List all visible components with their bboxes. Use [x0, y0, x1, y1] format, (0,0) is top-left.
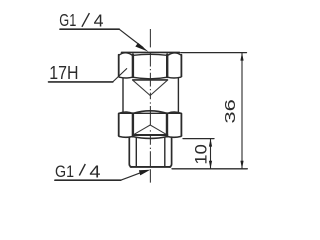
hex nut top: left corner line — [132, 55, 134, 77]
stem bottom edge — [131, 166, 171, 168]
label G1/4 top slash — [82, 13, 90, 27]
svg-text:G1: G1 — [59, 10, 76, 30]
hex nut bottom: center face top arc — [133, 111, 167, 114]
svg-text:10: 10 — [193, 144, 211, 164]
hex nut top: flat top line — [122, 51, 180, 53]
hex nut top: right outer edge — [180, 55, 182, 77]
hex nut bottom: bottom wavy line — [119, 136, 182, 139]
svg-text:4: 4 — [89, 162, 101, 182]
svg-text:G1: G1 — [55, 163, 74, 181]
female port cone: right leg — [150, 80, 167, 95]
hex nut bottom: top joint line — [119, 112, 181, 114]
hex nut top: right corner line — [166, 55, 168, 77]
stem thread line right — [164, 138, 166, 167]
leader 17H: diagonal — [113, 69, 127, 82]
leader 17H: underline — [49, 81, 113, 83]
leader G1/4 top: underline — [60, 28, 119, 30]
body right edge — [177, 78, 179, 111]
arrowhead leader G1/4 top — [135, 43, 148, 52]
hex nut top: bottom wavy line — [119, 77, 182, 79]
hex nut top: left face chamfer arc — [119, 53, 132, 55]
hex nut bottom: right corner line — [166, 113, 168, 136]
hex nut top: center face chamfer arc — [133, 53, 167, 56]
hex nut bottom: right outer edge — [180, 114, 182, 136]
arrowhead dim 10 up — [209, 139, 212, 147]
leader G1/4 top: diagonal — [119, 29, 143, 47]
male cone triangle: left leg — [133, 125, 150, 135]
arrowhead dim 36 up — [240, 53, 243, 61]
body left edge — [122, 78, 124, 111]
svg-text:4: 4 — [94, 10, 104, 30]
female port cone: top line — [133, 79, 168, 81]
hex nut bottom: left outer edge — [118, 114, 120, 136]
hex nut bottom: left face top arc — [119, 112, 132, 113]
label G1/4 bottom slash — [79, 164, 85, 176]
stem left outer edge — [129, 137, 131, 167]
hex nut bottom: right face top arc — [168, 112, 181, 113]
dim 10 line — [210, 139, 212, 169]
arrowhead leader G1/4 bottom — [139, 170, 150, 176]
svg-text:36: 36 — [222, 99, 239, 123]
female port cone: left leg — [133, 80, 150, 95]
shared extension line bottom — [172, 168, 247, 170]
dim 36 extension line top — [181, 52, 247, 54]
male cone triangle: right leg — [150, 125, 167, 135]
hex nut top: right face chamfer arc — [168, 53, 181, 55]
dim 36 line — [241, 53, 243, 169]
arrowhead dim 10 down — [209, 161, 212, 169]
leader G1/4 bottom: underline — [55, 179, 121, 181]
hex nut bottom: left corner line — [132, 113, 134, 136]
svg-text:17H: 17H — [49, 63, 78, 83]
stem thread line left — [135, 138, 137, 167]
stem right outer edge — [170, 137, 172, 167]
male cone triangle: base line — [133, 134, 167, 136]
arrowhead dim 36 down — [240, 161, 243, 169]
hex nut top: left outer edge — [118, 55, 120, 77]
centerline — [149, 29, 151, 183]
leader G1/4 bottom: diagonal — [121, 172, 142, 180]
dim 10 extension line top — [183, 138, 214, 140]
